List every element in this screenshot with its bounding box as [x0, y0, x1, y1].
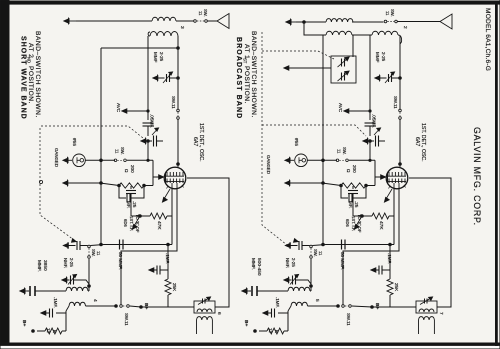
- ganged dashed to trimmer box: [262, 51, 334, 59]
- capacitor .25 MF right: [352, 186, 354, 189]
- svg-text:1ST. I.F.: 1ST. I.F.: [351, 216, 356, 231]
- page top border line: [0, 2, 500, 5]
- switch contacts osc right: [310, 245, 313, 248]
- capacitor .05MF left: [143, 122, 154, 124]
- wire plate lead inner left: [121, 189, 177, 305]
- antenna coil primary left circuit: [152, 17, 176, 21]
- wire rail to tube grid cap right: [399, 120, 401, 167]
- trimmer 2-25 NMF left: [62, 278, 67, 282]
- svg-text:11: 11: [385, 11, 390, 16]
- resistor 12K left: [65, 313, 67, 331]
- svg-text:50 MMF.: 50 MMF.: [118, 252, 123, 270]
- wire screen lead right: [393, 189, 395, 245]
- svg-text:MF.: MF.: [348, 201, 353, 208]
- wire lamp row right: [307, 159, 337, 161]
- wire variable cap to switch row right: [369, 141, 371, 160]
- switch SW.11 lamp row left: [114, 159, 117, 162]
- wire coil junction to trimmer box: [352, 35, 354, 57]
- svg-text:3: 3: [179, 26, 185, 29]
- capacitor .1MF to chassis left: [65, 311, 67, 313]
- wire rail to tube grid cap left: [177, 120, 179, 167]
- svg-text:6D6: 6D6: [345, 219, 350, 227]
- IF transformer left: [194, 301, 215, 313]
- svg-text:B+: B+: [374, 303, 380, 309]
- wire plate to IF rail right: [409, 178, 451, 307]
- wire antenna row left circuit: [76, 20, 152, 22]
- svg-text:6D6: 6D6: [123, 219, 128, 227]
- svg-text:SW.11: SW.11: [346, 313, 351, 326]
- terminal B+ main left: [140, 306, 143, 309]
- svg-text:7: 7: [438, 312, 444, 315]
- svg-text:POSITION.: POSITION.: [27, 66, 34, 104]
- wire screen dropping branch left: [167, 245, 169, 267]
- switch contacts osc left: [88, 245, 91, 248]
- wire 25K to B+ left: [141, 295, 168, 307]
- wire grid-return bus left: [100, 48, 102, 244]
- padder capacitor right: [242, 289, 247, 293]
- wire K node right: [353, 215, 372, 217]
- svg-text:11: 11: [96, 251, 101, 256]
- switch SW.11 antenna left circuit: [194, 20, 197, 23]
- svg-text:12: 12: [46, 328, 51, 333]
- svg-text:47K: 47K: [156, 221, 162, 230]
- svg-text:#55: #55: [71, 138, 77, 146]
- trimmer box lower trimmer: [341, 73, 343, 81]
- terminal B+ main right: [371, 306, 374, 309]
- svg-text:SW.: SW.: [120, 147, 125, 155]
- svg-text:SW.11: SW.11: [393, 96, 398, 109]
- wire B+ to IF transformer left: [141, 306, 194, 308]
- svg-text:POSITION.: POSITION.: [243, 66, 250, 104]
- wire screen lead left: [171, 189, 173, 245]
- cathode lead arrow down-left left: [164, 189, 170, 199]
- svg-text:MMF: MMF: [375, 52, 380, 63]
- wire plate to IF rail left: [187, 178, 229, 307]
- svg-text:MMF: MMF: [153, 52, 158, 63]
- svg-text:BAND–SWITCH SHOWN.: BAND–SWITCH SHOWN.: [250, 31, 257, 118]
- oscillator trimmer upper right: [286, 243, 291, 247]
- svg-text:.1MF.: .1MF.: [165, 253, 170, 264]
- svg-text:MF.: MF.: [126, 201, 131, 208]
- wire between coils right: [352, 34, 372, 36]
- svg-text:NMF.: NMF.: [63, 258, 68, 268]
- oscillator trimmer upper left: [64, 243, 69, 247]
- cathode lead arrow down-left right: [386, 189, 392, 199]
- ganged shaft circle left: [39, 180, 42, 183]
- trimmer capacitor 2-25 MMF left: [153, 76, 158, 80]
- svg-text:K: K: [52, 330, 57, 333]
- svg-text:AVC: AVC: [338, 103, 343, 113]
- svg-text:.1MF.: .1MF.: [275, 297, 280, 308]
- svg-text:2-25: 2-25: [159, 52, 164, 62]
- wire below .05MF cap left: [147, 126, 149, 136]
- page bottom white strip: [0, 345, 500, 349]
- variable tuning capacitor antenna section left: [141, 139, 146, 143]
- svg-text:#55: #55: [293, 138, 299, 146]
- antenna lead-in arrow right circuit: [286, 20, 291, 24]
- resistor 47K left: [150, 213, 167, 219]
- capacitor .1MF to chassis right: [287, 311, 289, 313]
- capacitor .25 MF left: [130, 186, 132, 189]
- svg-text:AVC: AVC: [116, 103, 121, 113]
- svg-text:ST: ST: [243, 58, 248, 64]
- wire 200 ohm to chassis arrow right: [285, 181, 290, 185]
- wire grid-return bus right: [322, 35, 324, 244]
- wire antenna row right circuit: [296, 21, 326, 23]
- svg-text:B+: B+: [143, 303, 149, 309]
- svg-text:MMF.: MMF.: [250, 258, 256, 270]
- wire coil B to rail: [400, 42, 402, 44]
- pilot lamp #55 left: [63, 158, 68, 162]
- svg-text:BROADCAST BAND: BROADCAST BAND: [235, 37, 242, 119]
- svg-text:2-25: 2-25: [381, 52, 386, 62]
- arrow TO K OF 1ST I.F. 6D6 right: [356, 216, 362, 226]
- svg-text:11: 11: [198, 11, 203, 16]
- svg-text:12: 12: [268, 328, 273, 333]
- trimmer capacitor 2-25 MMF right: [375, 76, 380, 80]
- svg-text:6A7: 6A7: [192, 137, 198, 146]
- wire switch to antenna symbol right: [398, 21, 441, 23]
- wire trimmer box arrow: [284, 66, 289, 70]
- wire oscillator feedback row right: [313, 245, 327, 246]
- capacitor .1MF screen right: [382, 269, 390, 271]
- oscillator coil right: [288, 287, 310, 291]
- svg-text:GANGED: GANGED: [266, 155, 271, 174]
- svg-text:11: 11: [337, 149, 342, 154]
- antenna lead-in arrow left circuit: [64, 19, 69, 23]
- capacitor 50 MMF left: [119, 240, 121, 250]
- svg-text:500-450: 500-450: [256, 258, 262, 276]
- svg-text:.25: .25: [354, 201, 359, 208]
- resistor 47K right: [372, 213, 389, 219]
- svg-text:Ω: Ω: [346, 169, 351, 173]
- trimmer box upper trimmer: [341, 59, 343, 67]
- ganged dashed line left circuit horizontal: [41, 126, 143, 138]
- svg-text:47K: 47K: [378, 221, 384, 230]
- svg-text:6A7: 6A7: [414, 137, 420, 146]
- svg-text:25K: 25K: [394, 283, 399, 292]
- arrow into tube cathode right: [375, 176, 381, 178]
- wire feed to broadcast coils: [304, 22, 326, 35]
- svg-text:SW.: SW.: [342, 147, 347, 155]
- svg-text:MMF.: MMF.: [36, 260, 42, 272]
- resistor 25K left: [167, 266, 169, 279]
- antenna coil secondary left circuit: [150, 32, 178, 37]
- capacitor .1MF screen left: [160, 269, 168, 271]
- svg-text:SW.11: SW.11: [124, 313, 129, 326]
- svg-text:11: 11: [318, 251, 323, 256]
- trimmer box right circuit: [331, 56, 356, 83]
- switch SW.11 tank right: [399, 109, 402, 112]
- wire antenna-coil secondary left rail left: [147, 36, 149, 120]
- svg-text:2: 2: [402, 26, 408, 29]
- switch SW.11 lamp row right: [336, 159, 339, 162]
- wire K node left: [131, 215, 150, 217]
- ganged dashed to tuning cap right: [262, 125, 366, 136]
- svg-text:B+: B+: [21, 320, 27, 326]
- wire 200 ohm to chassis arrow left: [63, 181, 68, 185]
- svg-text:200: 200: [352, 165, 357, 173]
- svg-text:.1MF.: .1MF.: [387, 253, 392, 264]
- svg-text:2-25: 2-25: [69, 258, 74, 267]
- antenna symbol right circuit: [440, 14, 452, 29]
- pilot lamp #55 right: [285, 158, 290, 162]
- IF transformer right: [416, 301, 437, 313]
- svg-text:SW.: SW.: [313, 249, 318, 257]
- wire oscillator grid rail right: [399, 36, 401, 109]
- svg-text:GALVIN MFG. CORP.: GALVIN MFG. CORP.: [472, 127, 482, 226]
- svg-text:200: 200: [130, 165, 135, 173]
- ganged dashed line left circuit vertical: [40, 128, 75, 241]
- switch SW.11 antenna right circuit: [384, 20, 387, 23]
- wire switch to antenna symbol left: [208, 20, 218, 22]
- svg-text:.25: .25: [132, 201, 137, 208]
- wire variable cap to switch row left: [147, 141, 149, 160]
- svg-text:4: 4: [92, 299, 98, 302]
- wire lamp row left: [85, 159, 115, 161]
- svg-text:Ω: Ω: [124, 169, 129, 173]
- tickler coil left: [69, 302, 86, 306]
- svg-text:B+: B+: [243, 320, 249, 326]
- svg-text:SW.11: SW.11: [171, 96, 176, 109]
- oscillator coil left: [66, 287, 88, 291]
- page right border line: [496, 2, 498, 346]
- broadcast osc coil A: [326, 31, 352, 35]
- svg-text:.05MF.: .05MF.: [150, 114, 155, 128]
- ganged dashed line right vertical: [262, 32, 287, 245]
- svg-text:5: 5: [314, 299, 320, 302]
- svg-text:K: K: [274, 330, 279, 333]
- resistor 25K right: [389, 266, 391, 279]
- switch SW.11 B+ row right: [337, 305, 340, 308]
- tickler coil right: [291, 302, 308, 306]
- AVC tap arrow left: [122, 109, 127, 113]
- wire osc coil junction right: [310, 259, 312, 291]
- wire switch to grid node right: [349, 159, 375, 161]
- arrow into tube cathode left: [153, 176, 159, 178]
- wire 25K to B+ right: [372, 295, 390, 307]
- wire below .05MF cap right: [369, 126, 371, 136]
- variable tuning capacitor antenna section right: [363, 139, 368, 143]
- svg-text:6: 6: [216, 312, 222, 315]
- antenna coil primary right circuit: [326, 19, 353, 22]
- svg-text:BAND–SWITCH SHOWN.: BAND–SWITCH SHOWN.: [34, 31, 41, 118]
- svg-text:SHORT WAVE BAND: SHORT WAVE BAND: [20, 36, 27, 120]
- arrow TO K OF 1ST I.F. 6D6 left: [134, 216, 140, 226]
- svg-text:TO ’K’ OF: TO ’K’ OF: [135, 214, 140, 233]
- switch SW.11 B+ row left: [115, 305, 118, 308]
- svg-text:SW.: SW.: [91, 249, 96, 257]
- svg-text:MODEL 6A1,Ch.6-G: MODEL 6A1,Ch.6-G: [484, 8, 491, 71]
- tube 1ST DET OSC 6A7 left: [164, 167, 186, 189]
- resistor 200 ohm right: [340, 184, 343, 187]
- svg-text:.1MF.: .1MF.: [53, 297, 58, 308]
- bypass capacitor across 200 ohm left: [119, 186, 126, 199]
- wire tank top left: [101, 47, 178, 49]
- wire screen dropping branch right: [389, 245, 391, 267]
- svg-text:1ST. I.F.: 1ST. I.F.: [129, 216, 134, 231]
- wire plate lead inner right: [343, 189, 399, 305]
- svg-text:GANGED: GANGED: [54, 148, 59, 167]
- svg-text:25K: 25K: [172, 283, 177, 292]
- wire B+ to IF transformer right: [372, 306, 416, 308]
- svg-text:50 MMF.: 50 MMF.: [340, 252, 345, 270]
- antenna symbol left circuit: [217, 14, 229, 29]
- capacitor .05MF right: [365, 122, 376, 124]
- svg-text:.05MF.: .05MF.: [372, 114, 377, 128]
- bypass capacitor across 200 ohm right: [341, 186, 348, 199]
- switch SW.11 tank left: [177, 109, 180, 112]
- wire oscillator feedback row left: [91, 245, 105, 246]
- wire switch to grid node left: [127, 159, 153, 161]
- padder capacitor left: [20, 289, 25, 293]
- svg-text:3850: 3850: [42, 260, 48, 271]
- trimmer 2-25 NMF right: [284, 278, 289, 282]
- wire antenna-coil secondary left rail right: [369, 35, 371, 120]
- resistor 200 ohm left: [118, 184, 121, 187]
- wire osc coil junction left: [88, 259, 90, 291]
- AVC tap arrow right: [344, 109, 349, 113]
- wire oscillator grid rail left: [177, 36, 179, 109]
- tube 1ST DET OSC 6A7 right: [386, 167, 408, 189]
- svg-text:TO ’K’ OF: TO ’K’ OF: [357, 214, 362, 233]
- svg-text:11: 11: [115, 149, 120, 154]
- capacitor 50 MMF right: [341, 240, 343, 250]
- broadcast osc coil B: [372, 31, 398, 35]
- resistor 12K right: [287, 313, 289, 331]
- svg-text:NMF.: NMF.: [285, 258, 290, 268]
- page bottom border line: [0, 343, 500, 345]
- page left black margin bar: [0, 0, 9, 346]
- svg-text:2-25: 2-25: [291, 258, 296, 267]
